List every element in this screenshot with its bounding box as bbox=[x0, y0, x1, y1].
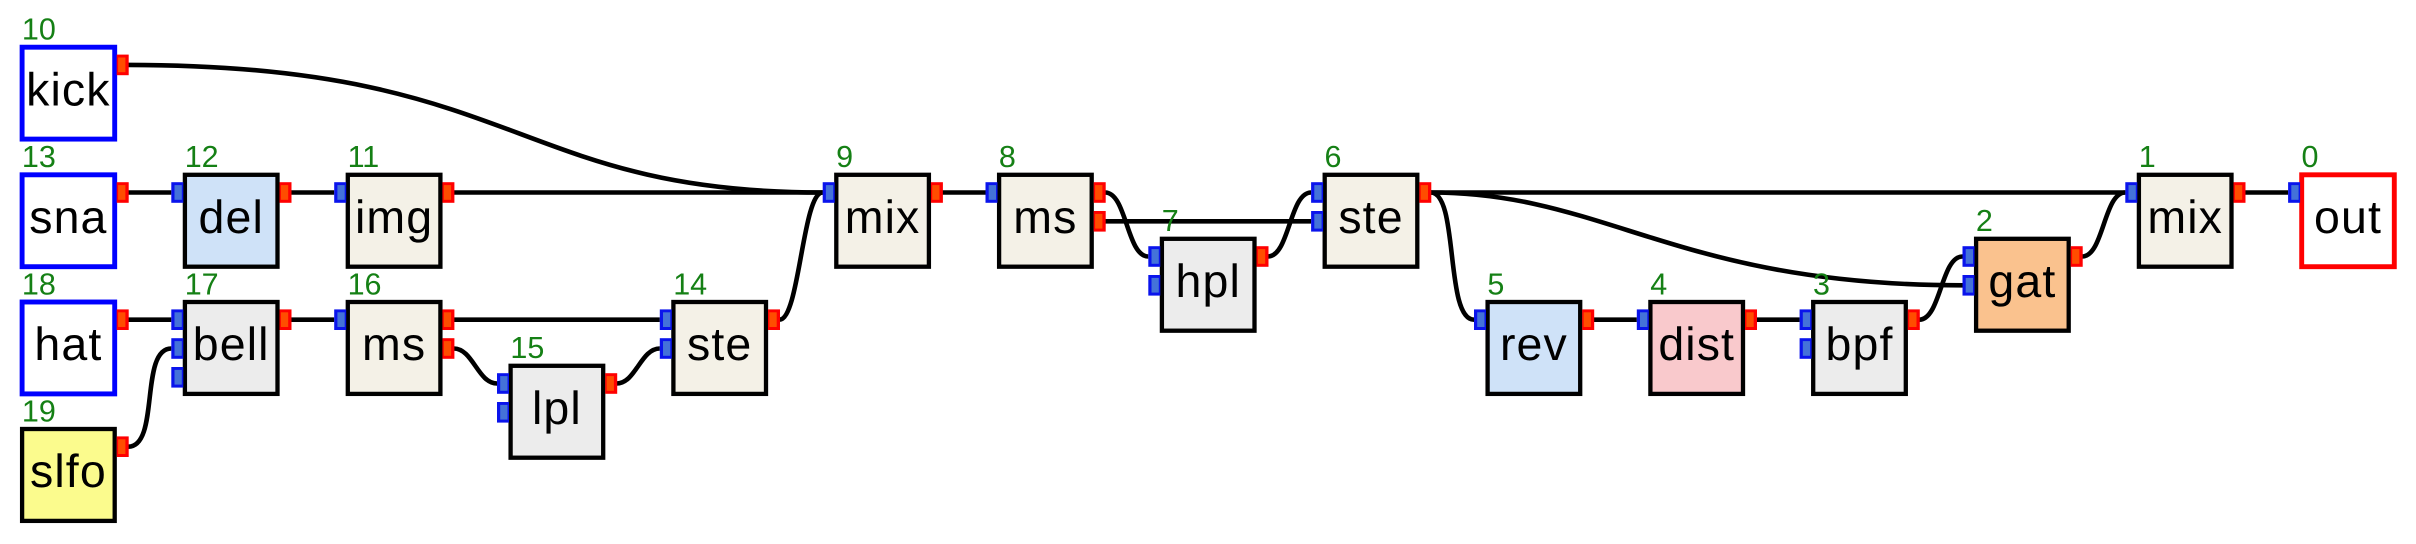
module dist (4) bbox=[1650, 302, 1743, 394]
label 19 for slfo bbox=[22, 394, 56, 428]
output port ms(8).out1 bbox=[1094, 182, 1106, 203]
label 6 for ste bbox=[1325, 140, 1342, 174]
module slfo (19) bbox=[22, 429, 115, 521]
output port gat(2).out1 bbox=[2071, 246, 2083, 267]
svg-text:img: img bbox=[355, 191, 433, 243]
svg-text:6: 6 bbox=[1325, 140, 1342, 174]
svg-text:ste: ste bbox=[687, 318, 752, 370]
wire rev.out -> dist.in bbox=[1594, 317, 1637, 322]
svg-text:19: 19 bbox=[22, 394, 56, 428]
label 5 for rev bbox=[1487, 267, 1504, 301]
svg-text:4: 4 bbox=[1650, 267, 1667, 301]
input port hpl(7).in2 bbox=[1148, 275, 1160, 296]
svg-text:bell: bell bbox=[193, 318, 270, 370]
input port ste(6).in2 bbox=[1311, 211, 1323, 232]
output port del(12).out1 bbox=[280, 182, 292, 203]
input port mix(9).in1 bbox=[823, 182, 835, 203]
module img (11) bbox=[348, 175, 441, 267]
svg-text:17: 17 bbox=[185, 267, 219, 301]
label 18 for hat bbox=[22, 267, 56, 301]
wire ste(6).out -> gat.in2 bbox=[1431, 193, 1963, 286]
wire hat.out -> bell.in1 bbox=[128, 317, 171, 322]
wire lpl.out -> ste(14).in2 bbox=[617, 349, 660, 384]
wire mix(9).out -> ms(8).in bbox=[942, 190, 985, 195]
module rev (5) bbox=[1488, 302, 1581, 394]
module kick (10) bbox=[22, 47, 115, 139]
svg-text:out: out bbox=[2314, 191, 2382, 243]
output port mix(9).out1 bbox=[931, 182, 943, 203]
wire gat.out -> mix(1).in bbox=[2082, 193, 2125, 257]
output port mix(1).out1 bbox=[2234, 182, 2246, 203]
svg-text:ms: ms bbox=[1013, 191, 1077, 243]
output port lpl(15).out1 bbox=[605, 373, 617, 394]
label 3 for bpf bbox=[1813, 267, 1830, 301]
svg-text:3: 3 bbox=[1813, 267, 1830, 301]
svg-text:14: 14 bbox=[673, 267, 707, 301]
svg-text:11: 11 bbox=[348, 140, 380, 174]
svg-text:18: 18 bbox=[22, 267, 56, 301]
module ste (14) bbox=[673, 302, 766, 394]
label 4 for dist bbox=[1650, 267, 1667, 301]
output port hat(18).out1 bbox=[117, 309, 129, 330]
svg-text:hpl: hpl bbox=[1176, 255, 1241, 307]
input port bell(17).in1 bbox=[171, 309, 183, 330]
input port lpl(15).in2 bbox=[497, 402, 509, 423]
input port ste(14).in2 bbox=[660, 338, 672, 359]
input port mix(1).in1 bbox=[2125, 182, 2137, 203]
svg-text:1: 1 bbox=[2139, 140, 2156, 174]
input port bell(17).in2 bbox=[171, 338, 183, 359]
input port ste(6).in1 bbox=[1311, 182, 1323, 203]
label 8 for ms bbox=[999, 140, 1016, 174]
svg-text:lpl: lpl bbox=[532, 382, 582, 434]
input port bpf(3).in2 bbox=[1800, 338, 1812, 359]
wire ms(16).out1 -> ste(14).in1 bbox=[454, 317, 660, 322]
output port ste(6).out1 bbox=[1419, 182, 1431, 203]
svg-text:slfo: slfo bbox=[30, 445, 107, 497]
svg-text:bpf: bpf bbox=[1826, 318, 1894, 370]
label 11 for img bbox=[348, 140, 380, 174]
input port bell(17).in3 bbox=[171, 367, 183, 388]
svg-text:16: 16 bbox=[348, 267, 382, 301]
label 2 for gat bbox=[1976, 204, 1993, 238]
wire ste(6).out -> rev.in bbox=[1431, 193, 1474, 320]
svg-text:12: 12 bbox=[185, 140, 219, 174]
input port rev(5).in1 bbox=[1474, 309, 1486, 330]
input port lpl(15).in1 bbox=[497, 373, 509, 394]
module out (0) bbox=[2302, 175, 2395, 267]
module del (12) bbox=[185, 175, 278, 267]
wire dist.out -> bpf.in1 bbox=[1756, 317, 1799, 322]
output port rev(5).out1 bbox=[1582, 309, 1594, 330]
input port hpl(7).in1 bbox=[1148, 246, 1160, 267]
label 12 for del bbox=[185, 140, 219, 174]
module bell (17) bbox=[185, 302, 278, 394]
svg-text:9: 9 bbox=[836, 140, 853, 174]
module lpl (15) bbox=[511, 366, 604, 458]
label 14 for ste bbox=[673, 267, 707, 301]
wire ste(14).out -> mix(9).in bbox=[779, 193, 822, 320]
input port out(0).in1 bbox=[2288, 182, 2300, 203]
wire slfo.out -> bell.in2 bbox=[128, 349, 171, 447]
label 13 for sna bbox=[22, 140, 56, 174]
wire ms(8).out1 -> hpl.in1 bbox=[1105, 193, 1148, 257]
module mix (1) bbox=[2139, 175, 2232, 267]
label 7 for hpl bbox=[1162, 204, 1179, 238]
label 9 for mix bbox=[836, 140, 853, 174]
svg-text:0: 0 bbox=[2302, 140, 2319, 174]
module hpl (7) bbox=[1162, 239, 1255, 331]
module ms (16) bbox=[348, 302, 441, 394]
module hat (18) bbox=[22, 302, 115, 394]
input port ms(16).in1 bbox=[334, 309, 346, 330]
svg-text:mix: mix bbox=[2147, 191, 2223, 243]
svg-text:dist: dist bbox=[1658, 318, 1735, 370]
input port ste(14).in1 bbox=[660, 309, 672, 330]
svg-text:mix: mix bbox=[845, 191, 921, 243]
label 10 for kick bbox=[22, 13, 56, 47]
svg-text:13: 13 bbox=[22, 140, 56, 174]
module gat (2) bbox=[1976, 239, 2069, 331]
label 17 for bell bbox=[185, 267, 219, 301]
svg-text:gat: gat bbox=[1988, 255, 2056, 307]
output port ms(8).out2 bbox=[1094, 211, 1106, 232]
wire hpl.out -> ste(6).in1 bbox=[1268, 193, 1311, 257]
output port img(11).out1 bbox=[442, 182, 454, 203]
label 1 for mix bbox=[2139, 140, 2156, 174]
svg-text:sna: sna bbox=[29, 191, 107, 243]
wire ms(8).out2 -> ste(6).in2 bbox=[1105, 219, 1311, 224]
output port bell(17).out1 bbox=[280, 309, 292, 330]
label 15 for lpl bbox=[510, 331, 544, 365]
output port dist(4).out1 bbox=[1745, 309, 1757, 330]
wire bpf.out -> gat.in1 bbox=[1919, 257, 1962, 320]
output port ms(16).out1 bbox=[442, 309, 454, 330]
svg-text:2: 2 bbox=[1976, 204, 1993, 238]
wire ms(16).out2 -> lpl.in1 bbox=[454, 349, 497, 384]
wire sna.out -> del.in bbox=[128, 190, 171, 195]
module sna (13) bbox=[22, 175, 115, 267]
wire ste(6).out -> mix(1).in bbox=[1431, 190, 2126, 195]
svg-text:5: 5 bbox=[1487, 267, 1504, 301]
wire mix(1).out -> out.in bbox=[2245, 190, 2288, 195]
output port hpl(7).out1 bbox=[1257, 246, 1269, 267]
output port kick(10).out1 bbox=[117, 55, 129, 76]
module ste (6) bbox=[1325, 175, 1418, 267]
wire img.out -> mix(9).in bbox=[454, 190, 823, 195]
svg-text:10: 10 bbox=[22, 13, 56, 47]
output port ms(16).out2 bbox=[442, 338, 454, 359]
svg-text:hat: hat bbox=[34, 318, 102, 370]
input port bpf(3).in1 bbox=[1800, 309, 1812, 330]
module bpf (3) bbox=[1813, 302, 1906, 394]
module ms (8) bbox=[999, 175, 1092, 267]
label 0 for out bbox=[2302, 140, 2319, 174]
output port bpf(3).out1 bbox=[1908, 309, 1920, 330]
output port slfo(19).out1 bbox=[117, 436, 129, 457]
input port gat(2).in2 bbox=[1963, 275, 1975, 296]
output port sna(13).out1 bbox=[117, 182, 129, 203]
input port gat(2).in1 bbox=[1963, 246, 1975, 267]
svg-text:del: del bbox=[199, 191, 264, 243]
input port ms(8).in1 bbox=[986, 182, 998, 203]
wire bell.out -> ms(16).in bbox=[291, 317, 334, 322]
svg-text:15: 15 bbox=[510, 331, 544, 365]
svg-text:ms: ms bbox=[362, 318, 426, 370]
svg-text:7: 7 bbox=[1162, 204, 1179, 238]
svg-text:rev: rev bbox=[1500, 318, 1568, 370]
svg-text:8: 8 bbox=[999, 140, 1016, 174]
input port img(11).in1 bbox=[334, 182, 346, 203]
input port dist(4).in1 bbox=[1637, 309, 1649, 330]
output port ste(14).out1 bbox=[768, 309, 780, 330]
wire del.out -> img.in bbox=[291, 190, 334, 195]
label 16 for ms bbox=[348, 267, 382, 301]
module mix (9) bbox=[836, 175, 929, 267]
svg-text:kick: kick bbox=[26, 63, 110, 115]
wire kick.out -> mix(9).in bbox=[128, 65, 823, 193]
input port del(12).in1 bbox=[171, 182, 183, 203]
svg-text:ste: ste bbox=[1338, 191, 1403, 243]
